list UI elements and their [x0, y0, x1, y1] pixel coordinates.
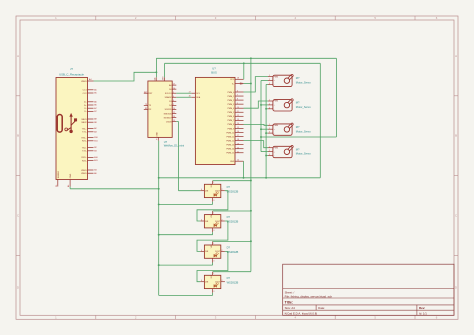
wire PWM_0 to M1 [244, 77, 269, 92]
svg-text:TX1-: TX1- [82, 132, 87, 134]
svg-text:VBUS: VBUS [81, 173, 87, 175]
svg-text:18: 18 [237, 139, 239, 141]
svg-text:PWM_8: PWM_8 [227, 124, 234, 126]
IC U2 PCA9685 (BUS) [195, 67, 235, 165]
pin SDA of U2 [189, 95, 201, 99]
svg-text:3: 3 [213, 261, 214, 263]
pin RX of U1 (left) [144, 108, 152, 111]
pin DIN of D3 [200, 250, 209, 253]
pin TX1- (A3) of J1 [82, 130, 97, 133]
wire VSS branch D2 to GND rail [159, 232, 213, 235]
pin PWM_10 of U2 [226, 131, 243, 134]
pin VBUS () of J1 [81, 81, 93, 83]
svg-text:GND: GND [230, 161, 235, 163]
wire DOUT D2 to DIN D3 [197, 221, 228, 251]
svg-text:13: 13 [237, 119, 239, 121]
svg-text:A: A [455, 54, 457, 58]
svg-text:PWM_14: PWM_14 [226, 149, 234, 151]
svg-text:PWM_12: PWM_12 [226, 140, 234, 142]
svg-text:TX2-: TX2- [82, 151, 87, 153]
pin VDD of D4 [211, 272, 215, 279]
svg-text:U?: U? [164, 140, 168, 144]
wire DOUT D3 to DIN D4 [197, 251, 228, 281]
pin PWM_7 of U2 [227, 119, 243, 122]
wire - stub to M1 [266, 83, 268, 85]
svg-text:1: 1 [213, 182, 214, 184]
pin V+ of U2 [232, 83, 244, 86]
wire branch down to U2 VCC [243, 63, 245, 79]
svg-text:2: 2 [222, 189, 223, 191]
svg-text:D3: D3 [169, 101, 171, 103]
pin MISO/D6 of U1 [164, 112, 177, 115]
pin SDA/D2 of U1 [165, 96, 177, 99]
pin PWM_5 of U2 [227, 111, 243, 114]
pin RX2- (A11) of J1 [82, 159, 98, 162]
pin SCL/D1 of U1 [165, 92, 176, 95]
wire - stub to M2 [266, 108, 268, 110]
module U1 WeMos_D1_mini [148, 81, 185, 148]
pin PWM_8 of U2 [227, 123, 243, 126]
svg-text:2: 2 [269, 104, 270, 106]
pin DIN of D4 [200, 280, 209, 283]
svg-text:10: 10 [237, 107, 239, 109]
wire VDD branch D3 [213, 240, 251, 242]
svg-text:15: 15 [173, 120, 175, 122]
svg-text:SCL/D1: SCL/D1 [165, 93, 172, 95]
junction dots [155, 57, 267, 266]
motor M1 Motor_Servo [273, 74, 311, 86]
pin VSS of D2 [213, 228, 215, 232]
svg-text:BUS: BUS [211, 70, 217, 74]
wire VBUS from J1 to 5V node [94, 72, 157, 81]
pin DIN of D2 [200, 219, 209, 222]
pin DOUT of D2 [215, 219, 225, 222]
svg-text:7: 7 [237, 95, 238, 97]
pin D3 of U1 [169, 100, 176, 103]
svg-text:3: 3 [213, 230, 214, 232]
pin VBUS number A4 of J1 [89, 78, 92, 81]
pin VCC of U2 [230, 78, 243, 82]
svg-text:KiCad E.D.A. kicad (6.0.8): KiCad E.D.A. kicad (6.0.8) [285, 311, 318, 315]
svg-text:M?: M? [296, 125, 300, 129]
svg-text:6: 6 [237, 91, 238, 93]
pin PWM_14 of U2 [226, 147, 243, 150]
svg-text:Title:: Title: [285, 301, 294, 305]
pin + of M4 [268, 150, 275, 153]
svg-text:PWM: PWM [274, 101, 279, 103]
pin PWM_12 of U2 [226, 139, 243, 142]
pin PWM_0 of U2 [227, 91, 243, 94]
svg-text:3: 3 [269, 154, 270, 156]
svg-text:4: 4 [173, 96, 174, 98]
svg-text:PWM: PWM [274, 125, 279, 127]
svg-text:SHIELD: SHIELD [58, 170, 60, 178]
pin PWM_2 of U2 [227, 99, 243, 102]
pin RX2+ (A10) of J1 [82, 156, 99, 159]
pin PWM of M4 [268, 146, 279, 149]
pin SCK/D5 of U1 [165, 108, 177, 111]
svg-text:2: 2 [173, 104, 174, 106]
svg-text:2: 2 [269, 128, 270, 130]
svg-text:DOUT: DOUT [215, 191, 221, 193]
svg-text:1: 1 [269, 124, 270, 126]
svg-text:D?: D? [227, 276, 231, 280]
svg-text:M?: M? [296, 76, 300, 80]
svg-text:1: 1 [213, 273, 214, 275]
svg-text:DOUT: DOUT [215, 282, 221, 284]
pin PWM_11 of U2 [227, 135, 244, 138]
pin + of M1 [268, 79, 275, 82]
svg-text:4: 4 [201, 189, 202, 191]
svg-text:2: 2 [222, 250, 223, 252]
LED D3 WS2812B [204, 245, 238, 258]
svg-text:Size: A4: Size: A4 [285, 306, 296, 310]
svg-text:MOSI/D7: MOSI/D7 [164, 117, 172, 119]
pin VSS of D3 [213, 258, 215, 262]
wire SCL U1-U2 [176, 92, 191, 94]
svg-text:TX2+: TX2+ [82, 147, 88, 149]
svg-text:GND: GND [70, 173, 72, 178]
svg-text:16: 16 [237, 131, 239, 133]
pin PWM_3 of U2 [227, 103, 243, 106]
pin RX1+ (B10) of J1 [82, 137, 99, 139]
svg-text:TX1+: TX1+ [82, 128, 88, 130]
svg-text:2: 2 [222, 280, 223, 282]
svg-text:12: 12 [237, 115, 239, 117]
wire servo - rail vertical x=266.1 [265, 84, 267, 177]
pin SCL of U2 [189, 91, 200, 95]
pin PWM of M3 [268, 124, 279, 127]
LED D1 WS2812B [204, 184, 238, 197]
svg-text:D: D [455, 285, 457, 289]
svg-text:28: 28 [237, 78, 239, 80]
svg-text:D0: D0 [169, 89, 171, 91]
wire + stub to M2 [261, 104, 268, 106]
svg-text:1: 1 [269, 75, 270, 77]
svg-text:D-: D- [84, 111, 86, 113]
svg-text:19: 19 [237, 143, 239, 145]
svg-text:2: 2 [269, 150, 270, 152]
svg-text:15: 15 [237, 127, 239, 129]
svg-text:SBU1: SBU1 [81, 119, 87, 121]
pin DOUT of D1 [215, 189, 225, 192]
pin 3V3 of U1 (top) [163, 76, 165, 81]
pin + of M2 [268, 104, 275, 107]
svg-text:2: 2 [222, 219, 223, 221]
svg-text:U?: U? [212, 67, 216, 71]
pin GND of U1 (bottom) [156, 132, 159, 142]
svg-text:2: 2 [269, 79, 270, 81]
svg-text:PWM_7: PWM_7 [227, 120, 234, 122]
pin D+ (A6) of J1 [84, 100, 98, 103]
svg-text:SCK/D5: SCK/D5 [165, 109, 172, 111]
pin SBU1 (A8) of J1 [81, 118, 97, 121]
svg-text:WeMos_D1_mini: WeMos_D1_mini [164, 144, 185, 148]
svg-text:1: 1 [269, 146, 270, 148]
svg-text:B: B [455, 134, 457, 138]
svg-text:SDA/D2: SDA/D2 [165, 96, 172, 99]
svg-text:14: 14 [237, 123, 239, 125]
svg-text:Motor_Servo: Motor_Servo [296, 81, 311, 85]
pin VDD of D1 [211, 181, 215, 188]
svg-text:PWM_0: PWM_0 [227, 92, 234, 94]
wire VSS branch D3 to GND rail [159, 263, 213, 266]
pin VDD of D3 [211, 241, 215, 248]
LED D4 WS2812B [204, 275, 238, 288]
svg-text:SCL: SCL [196, 93, 200, 95]
svg-text:Id: 1/1: Id: 1/1 [419, 311, 427, 315]
svg-text:0: 0 [173, 100, 174, 102]
wire GND horizontal rail y=177.8 [159, 177, 321, 179]
pin PWM_15 of U2 [226, 151, 243, 154]
svg-text:3: 3 [213, 200, 214, 202]
svg-text:RX1-: RX1- [82, 141, 87, 143]
pin D4 of U1 [169, 104, 176, 107]
wire VSS branch D1 to GND rail [159, 202, 213, 205]
pin GND (A1,B12) of J1 [67, 173, 72, 187]
pin SBU2 (B8) of J1 [81, 122, 97, 124]
pin PWM_13 of U2 [226, 143, 243, 146]
svg-text:+: + [274, 80, 275, 82]
LED D2 WS2812B [204, 215, 238, 228]
svg-text:RX2-: RX2- [82, 160, 87, 162]
pin PWM_6 of U2 [227, 115, 243, 118]
pin D+ (B6) of J1 [84, 105, 98, 107]
svg-text:GND: GND [157, 132, 159, 137]
wire + stub to M1 [261, 80, 268, 82]
svg-text:20: 20 [237, 147, 239, 149]
pin VDD of D2 [211, 211, 215, 218]
USB logo glyph inside J1 [57, 113, 77, 133]
svg-text:VCC: VCC [230, 79, 235, 81]
svg-text:M?: M? [296, 147, 300, 151]
wire VDD branch D1 [213, 180, 251, 182]
svg-text:RX2+: RX2+ [82, 157, 88, 159]
svg-text:3: 3 [213, 291, 214, 293]
svg-text:4: 4 [201, 250, 202, 252]
wire U2 GND down to rail [243, 161, 245, 178]
svg-text:DOUT: DOUT [215, 221, 221, 223]
wire 3V3 from U1 across to right vertical (W2) [165, 63, 321, 178]
pin MOSI/D7 of U1 [164, 116, 177, 119]
wire PWM_4 to M2 [244, 101, 269, 108]
motor M2 Motor_Servo [273, 99, 311, 111]
svg-text:D: D [17, 285, 19, 289]
svg-text:+: + [274, 105, 275, 107]
svg-text:USB_C_Receptacle: USB_C_Receptacle [59, 72, 84, 76]
svg-text:SBU2: SBU2 [81, 122, 87, 124]
svg-text:PWM: PWM [274, 147, 279, 149]
svg-text:Date:: Date: [318, 306, 325, 310]
svg-text:CS/D8: CS/D8 [166, 121, 172, 123]
motor M4 Motor_Servo [273, 145, 311, 157]
pin CC2 (B5) of J1 [83, 93, 98, 95]
pin RST of U1 (left) [144, 92, 153, 95]
svg-text:1: 1 [213, 212, 214, 214]
pin CS/D8 of U1 [166, 120, 176, 123]
svg-text:PWM_6: PWM_6 [227, 116, 234, 118]
pin D- (A7) of J1 [84, 107, 97, 110]
svg-text:9: 9 [237, 103, 238, 105]
svg-text:D?: D? [227, 185, 231, 189]
pin SHIELD (S1) of J1 [56, 170, 60, 187]
LED glyph inside D3 [214, 252, 219, 257]
svg-text:8: 8 [237, 99, 238, 101]
svg-text:MISO/D6: MISO/D6 [164, 113, 172, 115]
pin PWM of M2 [268, 100, 279, 103]
svg-text:PWM_11: PWM_11 [227, 136, 235, 138]
svg-text:5: 5 [173, 92, 174, 94]
svg-text:3: 3 [269, 107, 270, 109]
pin TX of U1 (left) [144, 104, 152, 107]
wire VSS branch D4 to GND rail [159, 293, 213, 296]
svg-text:D4: D4 [169, 105, 171, 107]
svg-text:WS2812B: WS2812B [227, 250, 239, 254]
svg-text:File: fishing_display_servos.k: File: fishing_display_servos.kicad_sch [285, 294, 333, 298]
svg-text:PWM_4: PWM_4 [227, 108, 234, 110]
pin DIN of D1 [200, 189, 209, 192]
wire VDD branch D2 [213, 210, 251, 212]
svg-text:M?: M? [296, 101, 300, 105]
svg-text:+: + [274, 151, 275, 153]
svg-text:VBUS: VBUS [81, 81, 87, 83]
svg-text:21: 21 [237, 151, 239, 153]
svg-text:4: 4 [201, 280, 202, 282]
svg-text:PWM_10: PWM_10 [226, 132, 234, 134]
wire DOUT D1 to DIN D2 [197, 191, 228, 221]
pin + of M3 [268, 128, 275, 131]
svg-text:WS2812B: WS2812B [227, 280, 239, 284]
svg-text:PWM_13: PWM_13 [226, 144, 234, 146]
pin PWM_4 of U2 [227, 107, 243, 110]
wire + stub to M4 [261, 151, 268, 153]
pin VBUS (B4) of J1 [81, 170, 97, 172]
pin - of M2 [268, 107, 275, 110]
svg-text:12: 12 [173, 112, 175, 114]
pin - of M1 [268, 83, 275, 86]
svg-text:13: 13 [173, 116, 175, 118]
svg-text:J?: J? [70, 67, 73, 71]
wire - stub to M3 [266, 132, 268, 134]
svg-text:RX1+: RX1+ [82, 137, 88, 139]
wire J1 GND to rail [70, 187, 159, 189]
pin GND of U2 [230, 159, 244, 163]
title block [283, 264, 454, 315]
svg-text:PWM_9: PWM_9 [227, 128, 234, 130]
pin VBUS (A9) of J1 [81, 172, 97, 175]
svg-text:VBUS: VBUS [81, 170, 87, 172]
wire 5V feed down right side to servo + rail [261, 58, 336, 137]
pin A0 of U1 [169, 84, 176, 87]
svg-text:WS2812B: WS2812B [227, 189, 239, 193]
svg-text:RST: RST [144, 92, 147, 94]
wire CS/D8 from U1 to D1 DIN [176, 122, 200, 191]
svg-text:PWM_1: PWM_1 [227, 96, 234, 98]
svg-text:C: C [455, 214, 457, 218]
motor M3 Motor_Servo [273, 123, 311, 135]
wire + stub to M3 [261, 128, 268, 130]
svg-text:1: 1 [213, 243, 214, 245]
pin TX1+ (A2) of J1 [82, 127, 98, 130]
pin RX1- (B11) of J1 [82, 140, 98, 142]
pin DOUT of D3 [215, 250, 225, 253]
pin PWM_9 of U2 [227, 127, 243, 130]
svg-text:D?: D? [227, 215, 231, 219]
svg-text:C: C [17, 214, 19, 218]
LED glyph inside D1 [214, 192, 219, 197]
LED glyph inside D2 [214, 222, 219, 227]
svg-text:PWM_5: PWM_5 [227, 112, 234, 114]
pin D- (B7) of J1 [84, 111, 97, 113]
wire GND vertical main rail [158, 141, 160, 296]
svg-text:B: B [17, 134, 19, 138]
svg-text:4: 4 [201, 219, 202, 221]
pin TX2- (B3) of J1 [82, 150, 97, 152]
svg-text:14: 14 [173, 108, 175, 110]
svg-text:1: 1 [269, 100, 270, 102]
wire - stub to M4 [266, 155, 268, 157]
svg-text:17: 17 [237, 135, 239, 137]
pin PWM_1 of U2 [227, 95, 243, 98]
pin VSS of D4 [213, 289, 215, 293]
svg-text:A0: A0 [169, 84, 171, 87]
svg-text:D?: D? [227, 246, 231, 250]
wire PWM_8 to M3 [244, 123, 269, 126]
svg-text:16: 16 [173, 88, 175, 90]
pin PWM of M1 [268, 75, 279, 78]
svg-text:Rev:: Rev: [419, 306, 425, 310]
svg-text:17: 17 [173, 84, 175, 86]
svg-text:3: 3 [269, 83, 270, 85]
svg-text:D-: D- [84, 108, 86, 110]
svg-text:Motor_Servo: Motor_Servo [296, 129, 311, 133]
svg-text:Motor_Servo: Motor_Servo [296, 152, 311, 156]
svg-text:11: 11 [237, 111, 239, 113]
svg-text:14: 14 [237, 159, 239, 161]
wire PWM_12 to M4 [244, 141, 269, 148]
svg-text:PWM_3: PWM_3 [227, 104, 234, 106]
svg-text:Motor_Servo: Motor_Servo [296, 105, 311, 109]
pin CC1 (A5) of J1 [83, 88, 98, 91]
svg-text:3: 3 [269, 132, 270, 134]
pin TX2+ (B2) of J1 [82, 147, 98, 149]
wire servo + rail vertical x=261 [260, 81, 262, 152]
pin D0 of U1 [169, 88, 176, 91]
LED glyph inside D4 [214, 283, 219, 288]
pin - of M3 [268, 132, 275, 135]
svg-text:A: A [17, 54, 19, 58]
svg-text:PWM_2: PWM_2 [227, 100, 234, 102]
pin - of M4 [268, 154, 275, 157]
svg-text:PWM: PWM [274, 76, 279, 78]
svg-text:WS2812B: WS2812B [227, 220, 239, 224]
svg-text:+: + [274, 129, 275, 131]
wire V+ rail vertical x=250.9 (5V to WS2812 VDD) [244, 58, 251, 271]
wire VDD branch D4 [213, 271, 251, 273]
svg-text:DOUT: DOUT [215, 251, 221, 253]
pin 5V of U1 (top) [154, 77, 156, 81]
wire SDA U1-U2 [176, 96, 191, 98]
svg-text:PWM_15: PWM_15 [226, 153, 234, 155]
connector J1 USB_C_Receptacle [56, 67, 88, 179]
wire 5V rail top (W1) [156, 58, 336, 77]
pin DOUT of D4 [215, 280, 225, 283]
pin VSS of D1 [213, 198, 215, 202]
